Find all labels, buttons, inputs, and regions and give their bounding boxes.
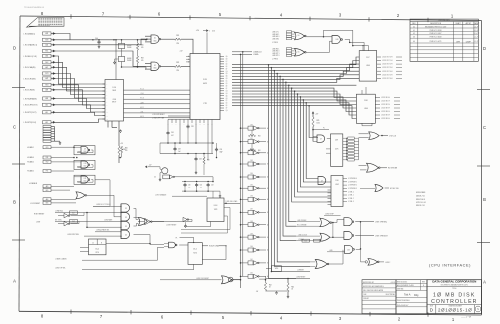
capacitor C32 xyxy=(207,183,209,185)
svg-text:L WRT: L WRT xyxy=(140,102,144,104)
wire xyxy=(56,85,106,102)
svg-text:L MID SEC: L MID SEC xyxy=(272,38,279,40)
wire bottom cell output xyxy=(259,278,266,280)
wire R32 to U16 xyxy=(181,65,190,67)
bus receiver cell 7 xyxy=(240,199,242,201)
svg-text:220: 220 xyxy=(176,70,179,72)
title block size and drawing number cells xyxy=(435,305,437,314)
wire D12 to gate stack xyxy=(87,195,121,217)
D18 output stubs xyxy=(375,97,380,99)
wire D5-8 feedback upper xyxy=(181,208,230,230)
svg-text:H INIT RESET: H INIT RESET xyxy=(34,214,44,216)
svg-text:7474: 7474 xyxy=(193,253,197,255)
U15 left pin stubs xyxy=(103,83,106,85)
AND gate D23b xyxy=(344,232,352,240)
title block approval stamp xyxy=(475,306,481,312)
svg-text:CONTROLLER: CONTROLLER xyxy=(431,299,477,305)
wire tap xyxy=(285,82,287,84)
wire gate loaded to D22a xyxy=(158,247,165,260)
svg-text:D9: D9 xyxy=(84,148,86,150)
svg-text:L INIT: L INIT xyxy=(36,222,40,224)
wire L3 TIME output xyxy=(380,167,387,169)
decoder outputs xyxy=(343,178,347,180)
capacitor C20 xyxy=(216,148,218,150)
+5V arrow at R25 xyxy=(312,113,314,117)
bus receiver cell 1 xyxy=(240,127,242,129)
svg-text:1 H2 CLK: 1 H2 CLK xyxy=(389,135,397,137)
svg-text:500NS: 500NS xyxy=(127,45,131,47)
svg-text:D16: D16 xyxy=(336,180,339,182)
wire xyxy=(56,67,106,91)
wire C34 drop xyxy=(167,123,169,131)
bus wire 4 xyxy=(232,71,359,76)
wire xyxy=(124,116,191,118)
analog rail 2 xyxy=(160,153,213,155)
svg-text:L CLR RESET: L CLR RESET xyxy=(30,203,40,205)
svg-text:L3 D2 OUT 2 H: L3 D2 OUT 2 H xyxy=(382,64,392,66)
svg-text:R40: R40 xyxy=(291,287,294,289)
svg-text:D30: D30 xyxy=(250,124,253,126)
svg-text:PER ECO 4471: PER ECO 4471 xyxy=(430,41,442,43)
resistor R26 pull-up xyxy=(120,146,122,152)
wire L2 INT DISABLE xyxy=(172,195,207,197)
svg-text:DESCRIPTION: DESCRIPTION xyxy=(430,23,442,25)
ground analog 1 xyxy=(195,171,197,172)
wire D2 output xyxy=(161,65,175,67)
bus wire 14 xyxy=(232,106,356,119)
svg-text:1: 1 xyxy=(209,30,210,32)
svg-text:9602: 9602 xyxy=(112,90,116,92)
ground rail under resistors xyxy=(266,290,289,292)
svg-text:D36: D36 xyxy=(250,196,253,198)
svg-text:L MID WT 1: L MID WT 1 xyxy=(272,53,280,55)
svg-text:2-1-77: 2-1-77 xyxy=(474,37,479,39)
svg-text:R26: R26 xyxy=(125,148,128,150)
input pull-up jumper xyxy=(43,61,52,64)
wire FF D5-4 out to D22 xyxy=(106,244,164,245)
svg-text:PER ECO 2098: PER ECO 2098 xyxy=(430,30,442,32)
wire D68 output to D17 xyxy=(345,40,350,43)
svg-text:L3 D2 IN 5 H: L3 D2 IN 5 H xyxy=(381,115,390,117)
wire xyxy=(56,62,106,87)
bus wire 8 xyxy=(232,88,356,97)
svg-text:L3 D2 OUT 4 H: L3 D2 OUT 4 H xyxy=(382,71,392,73)
svg-text:8640: 8640 xyxy=(84,166,87,168)
svg-text:QB: QB xyxy=(226,98,228,100)
wire L MSB DBL WORD xyxy=(95,231,121,233)
svg-text:4-9-76: 4-9-76 xyxy=(391,282,396,284)
svg-text:F05: F05 xyxy=(46,171,49,173)
svg-text:30pF: 30pF xyxy=(220,151,223,153)
svg-text:R23: R23 xyxy=(258,136,261,138)
svg-text:D2: D2 xyxy=(125,235,127,237)
bus receiver cell 8 xyxy=(240,212,242,214)
input pull-up jumper xyxy=(43,38,52,41)
svg-text:C33: C33 xyxy=(199,159,202,161)
AND gate stack E2 xyxy=(121,213,130,221)
inverter D8b xyxy=(64,221,68,226)
svg-text:L MID CLR RESET: L MID CLR RESET xyxy=(196,278,209,280)
svg-text:TITLE: TITLE xyxy=(452,288,456,290)
jumper box W18 xyxy=(314,239,321,242)
svg-text:QE: QE xyxy=(226,86,228,88)
wire xyxy=(56,105,106,112)
svg-text:R28: R28 xyxy=(207,160,210,162)
svg-text:C20: C20 xyxy=(220,149,223,151)
wire tap xyxy=(288,84,290,86)
AND gate D7a xyxy=(318,177,326,185)
resistor R25 xyxy=(312,117,314,127)
svg-text:ENG 2010015: ENG 2010015 xyxy=(397,282,407,284)
transistor Q1 xyxy=(162,168,168,174)
frame zone ticks bottom xyxy=(70,310,72,314)
svg-text:2007-10013-0: 2007-10013-0 xyxy=(397,300,410,302)
wire L SET XFR REQ xyxy=(355,221,374,223)
svg-text:04: 04 xyxy=(413,41,415,43)
svg-text:D19: D19 xyxy=(335,140,338,142)
svg-text:L2 RESET: L2 RESET xyxy=(297,270,304,272)
wire xyxy=(56,79,106,99)
U16 right pin stubs with labels xyxy=(220,56,224,58)
svg-text:B3: B3 xyxy=(267,141,269,143)
svg-text:QC: QC xyxy=(226,100,228,102)
buffer column feed wires xyxy=(240,54,242,288)
svg-text:L MID CYL: L MID CYL xyxy=(272,32,279,34)
NAND latch D11 xyxy=(74,175,95,184)
bus wire 10 xyxy=(232,94,356,105)
bus receiver cell 4 xyxy=(240,163,242,165)
NAND gate D1 xyxy=(151,35,159,43)
svg-text:1K: 1K xyxy=(291,289,293,291)
NAND latch D9 xyxy=(74,146,95,155)
wire tap xyxy=(276,73,278,75)
wire D3 loop over to D17 xyxy=(324,30,353,45)
svg-text:00: 00 xyxy=(413,26,415,28)
svg-text:-5V: -5V xyxy=(256,291,258,293)
svg-text:F06: F06 xyxy=(46,157,49,159)
wire rail1 left stub xyxy=(159,143,161,154)
D18 top pins xyxy=(361,90,363,94)
XOR gate E5 xyxy=(138,217,147,225)
terminator resistor R24 xyxy=(251,144,253,150)
wire D7-6 to D23b xyxy=(330,236,344,238)
svg-text:03: 03 xyxy=(413,37,415,39)
wire to gate 3 xyxy=(87,226,121,228)
flip-flop D5-8 xyxy=(207,198,224,222)
svg-text:01: 01 xyxy=(413,30,415,32)
wire bottom rail xyxy=(122,66,147,68)
drawing border frame xyxy=(20,16,482,21)
svg-text:QH: QH xyxy=(226,73,228,75)
svg-text:L2 SEL 0: L2 SEL 0 xyxy=(348,191,354,193)
svg-text:W11: W11 xyxy=(46,147,49,149)
wire top rail into D17 xyxy=(353,45,369,47)
resistor R30 xyxy=(137,40,139,43)
svg-text:+5V: +5V xyxy=(149,164,152,166)
wire xyxy=(56,112,106,115)
input pull-up jumper xyxy=(43,72,52,75)
svg-text:D14: D14 xyxy=(113,87,116,89)
wire D6-8 output xyxy=(233,279,241,281)
terminator resistor R23 xyxy=(251,130,253,135)
OR gate D21 xyxy=(367,163,379,172)
jumper stack W20 xyxy=(43,125,51,127)
svg-text:L2 STROBE 0: L2 STROBE 0 xyxy=(348,178,357,180)
wire xyxy=(56,56,106,84)
bus wire 5 xyxy=(232,75,359,80)
svg-text:Rdg: Rdg xyxy=(414,294,419,297)
wire D3 output xyxy=(306,36,332,38)
wire tap xyxy=(279,76,281,78)
ground for jumper stack xyxy=(55,140,61,142)
revisions table xyxy=(410,19,478,61)
svg-text:R32: R32 xyxy=(176,62,179,64)
svg-text:R31: R31 xyxy=(176,35,179,37)
svg-text:D18: D18 xyxy=(364,100,367,102)
svg-text:R24: R24 xyxy=(258,150,261,152)
svg-text:BIT SYNC: BIT SYNC xyxy=(55,219,63,221)
bus receiver cell 2 xyxy=(240,141,242,143)
wire H ADR CHAN xyxy=(202,245,208,247)
svg-text:REVISIONS: REVISIONS xyxy=(439,20,451,22)
wire top sel into D22 bottom xyxy=(193,264,195,269)
svg-text:L IN DCHP(OUT): L IN DCHP(OUT) xyxy=(24,105,38,107)
latch cell row xyxy=(346,138,348,160)
wire D22 feedback loop xyxy=(202,246,226,260)
resistor R42 xyxy=(265,279,267,281)
svg-text:D31: D31 xyxy=(250,138,253,140)
wire xyxy=(124,89,191,91)
svg-text:D68: D68 xyxy=(336,39,339,41)
svg-text:8640: 8640 xyxy=(153,68,156,70)
ground at inverter xyxy=(185,222,187,224)
svg-text:ONE: ONE xyxy=(112,99,115,101)
svg-text:RELEASED PER ECO 1469: RELEASED PER ECO 1469 xyxy=(425,25,446,28)
svg-text:B06: B06 xyxy=(46,203,49,205)
svg-text:C34: C34 xyxy=(171,132,174,134)
bus wire 6 xyxy=(232,78,359,82)
svg-text:H CLK: H CLK xyxy=(140,89,144,91)
wire E4 out xyxy=(134,235,151,244)
svg-text:8640: 8640 xyxy=(153,40,156,42)
AND gate D7-10 xyxy=(313,136,317,138)
svg-text:.1uF: .1uF xyxy=(188,187,191,189)
AND gate D68 xyxy=(332,36,340,44)
wire tap xyxy=(271,67,273,69)
resistor R32 xyxy=(175,65,182,67)
svg-text:D35: D35 xyxy=(250,184,253,186)
wire tap xyxy=(294,90,296,92)
svg-text:LS75: LS75 xyxy=(335,149,339,151)
svg-text:W51: W51 xyxy=(45,51,48,53)
svg-text:D1: D1 xyxy=(154,38,156,40)
svg-text:L2 PROD: L2 PROD xyxy=(272,58,278,60)
wire rail down to U15 xyxy=(115,40,117,80)
svg-text:D41: D41 xyxy=(250,259,253,261)
svg-text:D2: D2 xyxy=(154,177,156,179)
svg-text:D: D xyxy=(13,46,16,51)
svg-text:L2 STROBE 3: L2 STROBE 3 xyxy=(348,188,357,190)
svg-text:QC: QC xyxy=(226,81,228,83)
svg-text:L2 SEL 2: L2 SEL 2 xyxy=(348,198,354,200)
svg-text:L MID RD 1: L MID RD 1 xyxy=(272,48,279,50)
wire D7-10 to register xyxy=(327,138,331,140)
svg-text:L IN CHA(SEL 0): L IN CHA(SEL 0) xyxy=(24,44,38,47)
wire cap rail bottom xyxy=(182,190,220,192)
wire xyxy=(124,98,191,100)
svg-text:L3 D2 IN 6 H: L3 D2 IN 6 H xyxy=(381,118,390,120)
ground cap rail xyxy=(219,191,221,195)
wire xyxy=(124,94,191,96)
OR gate D6-6 xyxy=(375,185,383,192)
svg-text:85B 18-7 01: 85B 18-7 01 xyxy=(416,205,425,207)
wire tap xyxy=(297,93,299,95)
svg-text:D37: D37 xyxy=(250,209,253,211)
wire H SEL LOAD output xyxy=(224,202,240,204)
capacitor C29 xyxy=(174,147,176,149)
svg-text:B: B xyxy=(13,200,16,205)
svg-text:8640: 8640 xyxy=(84,151,87,153)
AND gate D23c xyxy=(345,245,353,253)
svg-text:U16: U16 xyxy=(212,30,215,32)
wire tap xyxy=(282,79,284,81)
svg-text:PL: PL xyxy=(176,237,178,239)
svg-text:PER ECO 3008: PER ECO 3008 xyxy=(430,37,442,39)
capacitor C33 xyxy=(195,157,197,159)
svg-text:L MID SLO CYCLE H: L MID SLO CYCLE H xyxy=(96,204,110,206)
wire +5V to U16 top xyxy=(206,32,208,53)
svg-text:QE: QE xyxy=(226,66,228,68)
svg-text:S: S xyxy=(477,307,479,311)
title block part number box xyxy=(396,280,427,314)
svg-text:L MID WT 0: L MID WT 0 xyxy=(272,55,280,57)
NAND latch D10 xyxy=(74,160,95,169)
wire xyxy=(56,74,106,95)
wire row 1 jog xyxy=(56,34,71,40)
AND gate D22a xyxy=(169,242,176,248)
svg-text:L MID HD 1: L MID HD 1 xyxy=(272,34,279,36)
wire D7-8 to D23a xyxy=(332,220,344,223)
svg-text:WH: WH xyxy=(456,41,460,43)
wire D23c output xyxy=(356,248,361,250)
capacitor C28 xyxy=(187,125,189,127)
svg-text:LS04: LS04 xyxy=(364,108,368,110)
inverter D13 xyxy=(145,218,151,225)
svg-text:470: 470 xyxy=(141,60,144,62)
svg-text:7474: 7474 xyxy=(95,252,99,254)
svg-text:C29: C29 xyxy=(178,149,181,151)
inverter into D5-8 xyxy=(183,217,187,221)
svg-text:D6: D6 xyxy=(298,52,300,54)
svg-text:D5-4: D5-4 xyxy=(95,248,99,250)
wire D4 output xyxy=(306,41,332,52)
latch feed dots xyxy=(73,146,75,148)
svg-text:D2: D2 xyxy=(125,217,127,219)
svg-text:45TD 10-5 01: 45TD 10-5 01 xyxy=(416,202,426,204)
svg-text:A: A xyxy=(13,279,16,284)
svg-text:8640: 8640 xyxy=(84,180,87,182)
IC D17 driver xyxy=(359,51,377,82)
frame zone ticks right xyxy=(477,89,490,91)
wire D1 output xyxy=(161,38,175,40)
svg-text:D23: D23 xyxy=(347,249,350,251)
svg-text:L IN DCHI(IN): L IN DCHI(IN) xyxy=(24,90,36,92)
svg-text:L SET XFR REQ: L SET XFR REQ xyxy=(375,222,388,224)
svg-text:B8: B8 xyxy=(267,188,269,190)
AND gate D23a xyxy=(344,218,352,226)
OR gate D7-8 xyxy=(320,218,330,227)
wire top rail xyxy=(114,39,146,41)
wires stack to E5 xyxy=(134,209,139,220)
svg-text:L2 SEL 1: L2 SEL 1 xyxy=(348,195,354,197)
svg-text:R42: R42 xyxy=(269,285,272,287)
svg-text:B1: B1 xyxy=(267,212,269,214)
wire tap xyxy=(274,70,276,72)
svg-text:W39: W39 xyxy=(45,40,48,42)
wire L SET XFR BUSY xyxy=(355,235,374,237)
wire R25 down xyxy=(312,127,314,142)
svg-text:R30: R30 xyxy=(141,45,144,47)
revisions table row lines xyxy=(410,27,478,29)
svg-text:1500: 1500 xyxy=(317,122,320,124)
svg-text:L MID PWR TRBL: L MID PWR TRBL xyxy=(67,234,79,236)
bus receiver cell 12 xyxy=(240,262,242,264)
svg-text:D34: D34 xyxy=(250,173,253,175)
svg-text:D39: D39 xyxy=(250,233,253,235)
wire D6-6 output xyxy=(385,187,389,189)
D17 output stubs xyxy=(377,56,381,58)
svg-text:2-4-76: 2-4-76 xyxy=(474,26,479,28)
title block approvals box xyxy=(362,280,396,314)
svg-text:1K: 1K xyxy=(269,287,271,289)
svg-text:4025: 4025 xyxy=(203,83,207,85)
svg-text:8-1-76: 8-1-76 xyxy=(474,30,479,32)
bus receiver cell 9 xyxy=(240,224,242,226)
capacitor C40 xyxy=(98,40,100,42)
bus wire 3 xyxy=(232,68,359,74)
wire D13 output xyxy=(152,220,192,222)
ground at C40 xyxy=(98,45,100,46)
bus receiver cell 13 xyxy=(240,276,242,278)
wire decoder to gate D6-6 xyxy=(360,188,375,190)
svg-text:B: B xyxy=(423,285,424,287)
flip-flop D5-4 xyxy=(89,239,107,255)
svg-text:L MID RESET: L MID RESET xyxy=(296,277,305,279)
svg-text:DWF: DWF xyxy=(466,41,472,43)
resistor R33 xyxy=(118,146,120,155)
svg-text:L2 STROBE 1: L2 STROBE 1 xyxy=(348,181,357,183)
svg-text:B: B xyxy=(483,197,486,202)
svg-text:DWN BY: DWN BY xyxy=(363,298,369,300)
U15 bottom pins xyxy=(107,121,109,128)
svg-text:L MID HD 0: L MID HD 0 xyxy=(272,36,279,38)
svg-text:D17: D17 xyxy=(366,57,369,59)
flip-flop D22 xyxy=(188,243,202,265)
gate stack feed vertical xyxy=(120,204,122,239)
svg-text:QC: QC xyxy=(226,61,228,63)
svg-text:470: 470 xyxy=(125,150,128,152)
svg-text:CHK: CHK xyxy=(363,294,366,296)
register IC D19 xyxy=(331,134,343,166)
svg-text:—— | ∼Ø: —— | ∼Ø xyxy=(461,317,471,319)
svg-text:L2 STROBE 2: L2 STROBE 2 xyxy=(348,185,357,187)
wire D22a to D22 xyxy=(179,244,188,246)
wire rail to gate D2 xyxy=(145,67,146,69)
FF D5-4 input wire xyxy=(80,247,89,249)
wire rate vertical xyxy=(86,213,88,228)
svg-text:QB: QB xyxy=(226,78,228,80)
D19 left pin stubs xyxy=(326,148,331,150)
